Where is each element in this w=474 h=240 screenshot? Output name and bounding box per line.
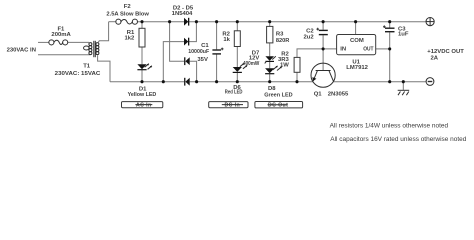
svg-text:IN: IN — [340, 47, 346, 53]
svg-text:10000uF: 10000uF — [188, 49, 209, 55]
svg-text:COM: COM — [350, 38, 364, 44]
svg-text:F2: F2 — [124, 4, 132, 10]
svg-text:1uF: 1uF — [398, 32, 409, 38]
svg-text:Green LED: Green LED — [264, 92, 292, 98]
svg-text:DC In: DC In — [225, 103, 241, 109]
svg-text:T1: T1 — [83, 64, 91, 70]
svg-text:LM7912: LM7912 — [346, 65, 368, 71]
svg-text:+12VDC OUT: +12VDC OUT — [427, 49, 464, 55]
svg-text:200mA: 200mA — [51, 32, 71, 38]
svg-text:2N3055: 2N3055 — [328, 92, 349, 98]
svg-text:230VAC IN: 230VAC IN — [7, 48, 36, 54]
svg-text:DC Out: DC Out — [268, 103, 288, 109]
svg-text:400mW: 400mW — [243, 61, 260, 67]
svg-text:Red LED: Red LED — [225, 89, 243, 95]
svg-text:820R: 820R — [276, 38, 290, 44]
svg-text:2u2: 2u2 — [304, 35, 315, 41]
svg-text:OUT: OUT — [363, 47, 374, 53]
svg-text:1N5404: 1N5404 — [172, 11, 193, 17]
svg-text:2A: 2A — [431, 55, 439, 61]
svg-text:D8: D8 — [268, 86, 276, 92]
svg-text:230VAC: 15VAC: 230VAC: 15VAC — [55, 71, 101, 77]
svg-text:35V: 35V — [197, 57, 208, 63]
svg-text:All capacitors 16V rated unles: All capacitors 16V rated unless otherwis… — [330, 136, 466, 143]
svg-text:R3: R3 — [276, 32, 284, 38]
svg-text:Q1: Q1 — [314, 92, 323, 98]
svg-text:1k: 1k — [223, 37, 230, 43]
svg-text:AC In: AC In — [136, 103, 152, 109]
svg-text:Yellow LED: Yellow LED — [128, 92, 157, 98]
svg-text:All resistors 1/4W unless othe: All resistors 1/4W unless otherwise note… — [330, 122, 449, 129]
svg-text:2.5A Slow Blow: 2.5A Slow Blow — [106, 12, 149, 18]
svg-text:1k2: 1k2 — [124, 36, 135, 42]
svg-text:1W: 1W — [280, 63, 289, 69]
